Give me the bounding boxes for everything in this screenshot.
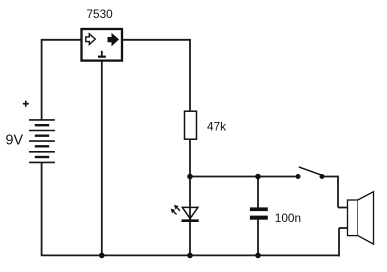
svg-text:9V: 9V — [6, 133, 24, 149]
LED emission arrow 2 — [173, 211, 176, 214]
LED emission arrow 1 — [177, 207, 180, 210]
regulator input arrow (outline) — [86, 34, 96, 45]
wire node A horizontal to switch — [190, 176, 298, 178]
wire speaker upper terminal stub — [338, 207, 348, 209]
junction dot regulator ground on rail — [99, 253, 105, 259]
wire left vertical battery to top rail — [41, 39, 43, 120]
wire regulator output to top-right corner — [122, 39, 191, 41]
switch lever — [299, 167, 322, 175]
switch left contact — [296, 174, 301, 179]
wire capacitor bottom stub — [257, 219, 259, 255]
speaker LS1 — [348, 192, 374, 244]
wire right vertical down to resistor — [189, 39, 191, 112]
switch S1 — [296, 167, 325, 179]
wire LED branch vertical — [189, 177, 191, 256]
voltage regulator U1 7530 — [82, 29, 123, 61]
switch right contact — [320, 174, 325, 179]
node A junction dot (resistor/LED/wire) — [187, 174, 193, 180]
battery plus sign — [23, 101, 29, 107]
node B junction dot (capacitor top) — [255, 174, 261, 180]
LED D1 — [171, 205, 199, 221]
wire capacitor top stub — [257, 177, 259, 209]
wire resistor bottom to node A — [189, 139, 191, 177]
wire battery bottom to rail — [41, 162, 43, 255]
svg-text:47k: 47k — [207, 119, 226, 133]
wire speaker lower terminal stub — [339, 227, 348, 229]
junction dot LED on rail — [187, 253, 193, 259]
junction dot capacitor on rail — [255, 253, 261, 259]
svg-text:100n: 100n — [275, 211, 301, 225]
wire speaker lower vertical to bottom rail — [338, 228, 340, 256]
regulator output arrow (filled) — [108, 34, 118, 45]
wire switch to right corner — [322, 176, 339, 178]
wire right vertical to speaker upper terminal — [337, 176, 339, 208]
battery BT1 9V — [29, 120, 55, 162]
wire top-left horizontal from battery to regulator — [42, 39, 82, 41]
resistor R1 — [185, 111, 197, 139]
regulator ground symbol — [98, 51, 106, 58]
wire bottom rail — [41, 254, 339, 256]
svg-text:7530: 7530 — [87, 7, 114, 21]
capacitor C1 100n — [250, 207, 268, 219]
wire regulator ground pin — [101, 61, 103, 256]
